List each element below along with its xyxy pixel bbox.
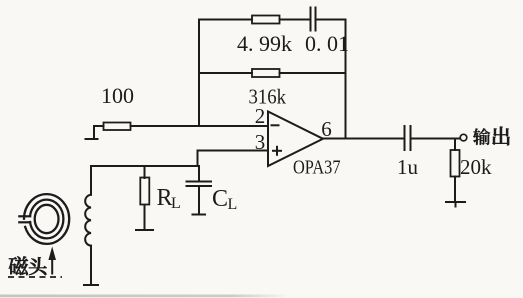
resistor RL — [140, 178, 149, 205]
wire to output terminal — [411, 138, 461, 140]
magnetic head middle ring — [30, 200, 64, 239]
inductor head winding — [85, 195, 91, 246]
arrow shaft — [51, 257, 53, 274]
wire right feedback vertical — [345, 20, 347, 139]
svg-text:20k: 20k — [460, 155, 492, 179]
resistor 20k — [451, 150, 460, 177]
output terminal circle — [460, 134, 467, 141]
wire top feedback left segment — [199, 19, 252, 21]
minus sign pin2 — [272, 124, 279, 126]
svg-text:L: L — [228, 196, 238, 213]
ground bar inductor — [84, 284, 98, 286]
svg-text:0. 01: 0. 01 — [305, 31, 349, 56]
resistor 20k stem — [454, 139, 456, 151]
wire left feedback vertical — [198, 20, 200, 127]
resistor 316k — [252, 69, 280, 77]
wire — [280, 19, 311, 21]
capacitor CL stem — [198, 166, 200, 182]
capacitor CL — [187, 181, 212, 183]
wire inductor bottom — [90, 246, 92, 285]
ground tick input — [86, 138, 98, 140]
wire — [316, 19, 346, 21]
svg-text:L: L — [171, 195, 181, 212]
svg-text:6: 6 — [321, 117, 332, 141]
head gap lip top — [19, 215, 30, 217]
svg-text:100: 100 — [101, 83, 134, 108]
wire pin2 — [131, 125, 269, 127]
dashed underline — [8, 276, 62, 278]
capacitor 0.01 — [310, 8, 312, 31]
wire input stub — [94, 126, 104, 139]
op-amp U1 OPA37 — [268, 112, 323, 167]
ground bar RL — [136, 229, 153, 231]
wire CL bottom — [198, 186, 200, 213]
scan streak bottom — [0, 295, 290, 298]
head gap lip bottom — [19, 221, 30, 223]
wire 316k left segment — [199, 72, 252, 74]
resistor 4.99k — [252, 16, 280, 24]
wire RL bottom — [144, 205, 146, 230]
wire 20k bottom — [454, 177, 456, 203]
label 磁头 (drawn glyphs) — [9, 256, 47, 275]
capacitor 1u — [404, 126, 406, 150]
wire — [280, 72, 346, 74]
wire pin3 — [198, 151, 269, 167]
wire output — [323, 138, 404, 140]
resistor 100 — [104, 123, 131, 131]
plus sign pin3 — [273, 150, 281, 152]
ground bar 20k — [446, 201, 465, 203]
magnetic head outer ring — [24, 194, 69, 244]
ground bar CL — [193, 214, 206, 216]
svg-text:1u: 1u — [397, 155, 419, 179]
svg-text:4. 99k: 4. 99k — [237, 31, 292, 56]
magnetic head inner ring — [35, 205, 59, 233]
svg-text:3: 3 — [255, 130, 266, 154]
label 输出 (drawn glyphs) — [473, 127, 510, 146]
svg-text:C: C — [212, 186, 228, 212]
svg-text:OPA37: OPA37 — [293, 158, 341, 179]
resistor RL stem — [144, 166, 146, 178]
wire load bus — [91, 165, 198, 167]
arrow head — [48, 247, 56, 261]
svg-text:2: 2 — [255, 104, 266, 128]
wire inductor top — [90, 166, 92, 195]
